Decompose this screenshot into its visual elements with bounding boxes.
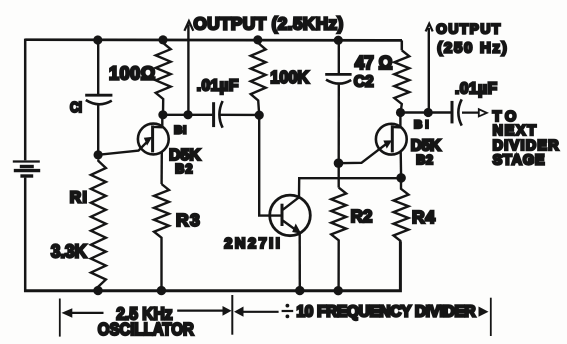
- wire C1 top lead: [97, 40, 99, 95]
- node C1 top junction: [93, 35, 102, 44]
- wire B1 output net (left): [163, 114, 259, 116]
- svg-text:47 Ω: 47 Ω: [355, 53, 393, 73]
- node Q2 B1 bottom / R4 junction: [396, 173, 406, 183]
- battery B1 (supply): [13, 162, 40, 177]
- svg-text:.01µF: .01µF: [455, 80, 497, 97]
- svg-text:STAGE: STAGE: [493, 153, 545, 169]
- wire output 2.5kHz stem: [187, 25, 189, 115]
- transistor Q3 2N2711: [270, 178, 401, 290]
- svg-text:CI: CI: [70, 100, 82, 116]
- svg-text:3.3K: 3.3K: [51, 240, 88, 261]
- node 47ohm bottom / Q2 B junction: [396, 108, 405, 117]
- node Q1 emitter junction: [94, 150, 103, 159]
- svg-text:(250 Hz): (250 Hz): [437, 39, 507, 56]
- section label /10 FREQUENCY DIVIDER: [282, 304, 476, 321]
- transistor Q2 D5K (unijunction): [339, 113, 407, 178]
- wire bottom rail: [24, 241, 400, 290]
- section arrow right (divider): [479, 307, 489, 317]
- wire C2 top lead: [338, 40, 340, 74]
- svg-text:OSCILLATOR: OSCILLATOR: [98, 319, 194, 339]
- node C2 top junction: [334, 36, 343, 45]
- net label TO NEXT DIVIDER STAGE: [493, 109, 560, 169]
- wire to next divider stage + arrow: [462, 109, 487, 116]
- wire C2 bottom lead: [338, 85, 340, 163]
- resistor 100K: [251, 40, 266, 115]
- node 100K bottom junction: [255, 111, 264, 120]
- wire output 250Hz stem: [428, 28, 430, 112]
- node Q3 emitter bottom junction: [295, 286, 304, 295]
- node output 2.5k junction: [183, 110, 192, 119]
- resistor R2: [331, 188, 346, 291]
- wire left vertical (battery bottom lead): [24, 178, 27, 292]
- wire top rail: [25, 38, 402, 41]
- capacitor .01uF coupling (right): [452, 99, 462, 125]
- svg-text:R4: R4: [412, 207, 435, 227]
- resistor 47 ohm: [394, 50, 409, 112]
- svg-text:100K: 100K: [270, 67, 309, 87]
- node 100ohm bottom / Q1 B junction: [158, 110, 167, 119]
- resistor R3: [154, 184, 169, 291]
- wire top rail corner into 47 ohm: [401, 40, 404, 50]
- transistor Q1 D5K (unijunction): [98, 115, 169, 184]
- node 100K top junction: [253, 35, 262, 44]
- wire 100K bottom to Q3 base: [259, 115, 281, 216]
- svg-text:RI: RI: [70, 190, 87, 207]
- capacitor C2: [325, 74, 351, 83]
- wire left vertical (battery top lead): [24, 39, 27, 161]
- section arrow left (oscillator): [62, 308, 104, 318]
- svg-text:BI: BI: [174, 124, 186, 136]
- node R1 bottom junction: [93, 286, 102, 295]
- wire B1 output net (right): [401, 111, 451, 113]
- wire C1 to R1 junction: [97, 105, 99, 155]
- arrow output 2.5kHz: [184, 21, 193, 31]
- section divider tick left: [59, 299, 61, 337]
- svg-text:C2: C2: [354, 73, 374, 91]
- section arrow left (divider): [234, 307, 279, 317]
- section divider tick middle: [231, 295, 233, 335]
- svg-text:B2: B2: [175, 162, 192, 176]
- arrow output 250Hz: [426, 24, 433, 32]
- svg-text:R2: R2: [351, 206, 373, 226]
- svg-text:R3: R3: [176, 210, 200, 230]
- svg-text:BI: BI: [414, 119, 429, 131]
- node C2 bottom / Q2 emitter junction: [334, 158, 344, 168]
- capacitor C1: [85, 95, 112, 104]
- wire C2 junction down through R2: [338, 163, 340, 187]
- svg-text:B2: B2: [416, 153, 433, 167]
- section divider tick right: [490, 298, 492, 336]
- node output 250Hz junction: [424, 108, 433, 117]
- svg-text:100Ω: 100Ω: [109, 64, 155, 84]
- node R3 bottom junction: [157, 286, 166, 295]
- node 100ohm top junction: [158, 35, 167, 44]
- resistor R1 3.3K: [91, 160, 106, 291]
- capacitor .01uF coupling (left): [214, 101, 223, 128]
- svg-text:10 FREQUENCY DIVIDER: 10 FREQUENCY DIVIDER: [297, 304, 476, 321]
- svg-text:OUTPUT (2.5KHz): OUTPUT (2.5KHz): [194, 15, 344, 34]
- section arrow right (oscillator): [177, 306, 231, 316]
- resistor 100 ohm: [156, 40, 171, 115]
- resistor R4: [394, 178, 409, 241]
- svg-text:.01µF: .01µF: [197, 78, 239, 95]
- node R2 bottom junction: [334, 286, 343, 295]
